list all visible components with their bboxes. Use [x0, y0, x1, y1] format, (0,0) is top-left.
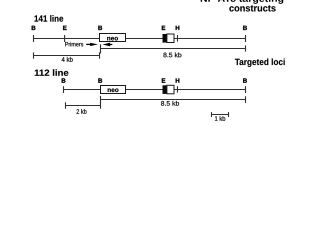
primer arrow left tail — [110, 44, 112, 46]
enzyme label H (line 112 @x=177.5) — [176, 78, 180, 82]
1 kb scale bar left tick — [211, 112, 213, 117]
primer arrow right head — [90, 43, 98, 46]
4 kb left tick — [33, 52, 35, 58]
8.5 kb left tick (112) — [100, 96, 102, 103]
1 kb scale bar — [212, 114, 229, 116]
exon white box (line 141) — [167, 34, 174, 43]
tick H (line 112) — [177, 86, 179, 92]
Targeted loci heading — [235, 58, 285, 66]
4 kb label — [62, 57, 73, 62]
enzyme label B (line 112 @x=63.5) — [62, 78, 66, 82]
enzyme label B (line 141 @x=100.2) — [98, 26, 102, 30]
header line 1 (cut off at top): NF-ATc targeting — [201, 0, 284, 4]
enzyme label B (line 141 @x=245) — [243, 26, 247, 30]
2 kb label — [77, 109, 87, 114]
exon black box (line 141) — [163, 34, 167, 43]
enzyme label B (line 112 @x=245) — [243, 78, 247, 82]
neo box (line 141) — [100, 34, 126, 42]
4 kb right tick — [99, 52, 101, 58]
tick B left (line 112) — [63, 86, 65, 93]
enzyme label H (line 141 @x=177.5) — [176, 26, 180, 30]
neo box (line 112) — [101, 86, 126, 94]
2 kb measure line (112) — [66, 105, 101, 107]
primer arrow left head — [103, 43, 111, 47]
enzyme label E (line 112 @x=163.5) — [162, 78, 165, 82]
tick B left (line 141) — [33, 35, 35, 42]
8.5 kb label (112) — [161, 101, 179, 106]
8.5 kb right tick (112) — [245, 96, 247, 103]
enzyme label E (line 141 @x=64.8) — [63, 26, 66, 30]
Primers label — [65, 42, 83, 47]
1 kb label — [215, 116, 225, 121]
neo label (line 112) — [108, 88, 119, 92]
primer arrow right tail — [86, 43, 91, 45]
neo label (line 141) — [107, 37, 118, 41]
header line 2: constructs — [229, 5, 275, 11]
enzyme label B (line 141 @x=33.5) — [32, 26, 36, 30]
tick H (line 141) — [177, 35, 179, 42]
tick B right (line 141) — [245, 35, 247, 42]
2 kb left tick — [65, 102, 67, 108]
map line 141 — [34, 38, 246, 40]
enzyme label E (line 141 @x=163.5) — [162, 26, 165, 30]
8.5 kb right tick (141) — [245, 45, 247, 51]
2 kb right tick — [100, 102, 102, 108]
map line 112 — [64, 89, 246, 91]
8.5 kb left tick (141) — [100, 44, 102, 53]
tick E (line 141) — [64, 35, 66, 42]
8.5 kb measure line (141) — [101, 48, 246, 50]
1 kb scale bar right tick — [228, 112, 230, 117]
section title: 112 line — [35, 69, 69, 76]
enzyme label B (line 112 @x=100.2) — [98, 78, 102, 82]
exon black box (line 112) — [163, 85, 167, 94]
8.5 kb measure line (112) — [101, 99, 246, 101]
section title: 141 line — [35, 15, 64, 22]
tick B right (line 112) — [245, 86, 247, 93]
exon white box (line 112) — [167, 85, 174, 94]
4 kb measure line (141) — [34, 55, 100, 57]
8.5 kb label (141) — [163, 52, 181, 57]
